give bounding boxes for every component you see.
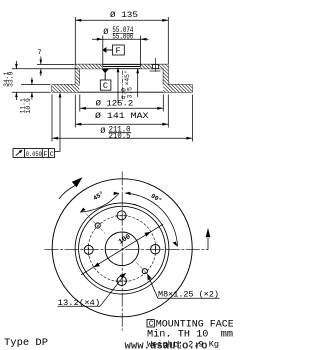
M8 hole NW (95, 223, 100, 228)
dim 7 arrows (40, 57, 42, 65)
arc 90deg (125, 193, 178, 247)
hat wall left inner (78, 69, 80, 85)
svg-text:C: C (103, 81, 108, 91)
rotation arrow top-left (59, 185, 77, 199)
right indicator leader (207, 238, 209, 250)
svg-text:Ø 141 MAX: Ø 141 MAX (95, 111, 149, 121)
hat wall right inner (162, 69, 164, 85)
leader M8 (158, 297, 220, 299)
svg-text:Ø 125.2: Ø 125.2 (96, 98, 134, 108)
svg-text:×45°: ×45° (123, 70, 131, 85)
section: plate top face (75, 63, 168, 65)
bolt hole W (84, 245, 93, 254)
dim 7 ext top (37, 63, 75, 65)
runout FCF box (13, 149, 55, 158)
common ext: mounting face extended left (12, 68, 79, 70)
hat wall right outer (167, 64, 169, 84)
datum F leader (106, 49, 112, 51)
dim 55 line (92, 38, 149, 40)
datum F box (113, 45, 125, 55)
dim 125.2 line (80, 107, 164, 109)
dim 135 ext right (167, 17, 169, 64)
arc 45deg (80, 193, 119, 212)
plan view circle 135 (79, 206, 166, 290)
svg-text:0.050: 0.050 (26, 151, 42, 159)
svg-text:C: C (149, 320, 154, 329)
bolt hole N (117, 211, 126, 220)
hat wall left outer (74, 64, 76, 84)
leader 13.2 (58, 305, 101, 307)
chamfer leader right (137, 69, 139, 97)
rotor right edge (191, 85, 193, 93)
bore wall right (140, 36, 142, 67)
hat wall right hatch (163, 64, 168, 84)
svg-text:Type DP: Type DP (4, 338, 48, 349)
dim 135 ext left (74, 17, 76, 64)
svg-text:Ø: Ø (103, 27, 108, 37)
dim 100 diagonal line (81, 224, 163, 275)
plan view center bore (105, 232, 139, 266)
svg-text:Ø: Ø (100, 126, 105, 136)
runout symbol (16, 150, 22, 155)
datum C leader (104, 73, 106, 80)
section centerline (121, 71, 123, 102)
bolt hole S (117, 276, 126, 285)
svg-text:www.asauto.ro: www.asauto.ro (125, 340, 208, 350)
svg-text:C: C (50, 151, 54, 159)
dim 141 line (75, 123, 168, 125)
section: bore chamfer line (103, 66, 141, 68)
svg-text:7: 7 (38, 49, 42, 56)
chamfer leader left (117, 68, 119, 104)
plan view outer circle (52, 179, 192, 317)
section: mounting face (79, 68, 163, 70)
svg-text:Min. TH 10 mm: Min. TH 10 mm (147, 328, 233, 340)
bore wall left (also ext of dia55) (102, 36, 104, 67)
plan view circle 141max (75, 203, 169, 294)
svg-text:M8×1.25 (×2): M8×1.25 (×2) (158, 289, 219, 299)
hat wall left hatch (75, 64, 79, 84)
plate hatch right a (141, 64, 153, 68)
dim 34.1 ext bottom (12, 91, 51, 93)
svg-text:F: F (116, 46, 121, 56)
ext lines below rotor (51, 95, 53, 142)
bolt hole E (151, 245, 160, 254)
rotor hatch left (52, 85, 79, 93)
drilled hole right edge (158, 64, 160, 68)
rotor top right (168, 84, 192, 86)
plate hatch left (76, 64, 103, 68)
mounting face C box bottom (147, 320, 154, 327)
datum C triangle on mounting face (101, 69, 109, 74)
plate hatch right b (159, 64, 169, 68)
svg-text:55.000: 55.000 (112, 32, 133, 42)
drilled hole centerline (155, 58, 157, 72)
svg-text:13.2(×4): 13.2(×4) (58, 298, 100, 308)
dim 211 line (52, 137, 192, 139)
plan view bolt circle dashed (88, 216, 156, 282)
vertical centerline (121, 172, 123, 331)
svg-text:F: F (43, 151, 47, 159)
svg-text:3.5: 3.5 (127, 87, 134, 99)
datum C box (100, 80, 111, 90)
dim 34.1 arrows (15, 61, 17, 69)
horizontal centerline (45, 249, 209, 251)
drilled hole left edge (152, 64, 154, 68)
M8 hole SE (142, 269, 147, 274)
dim 11.1 arrows (31, 78, 33, 85)
svg-text:10.9: 10.9 (25, 98, 32, 114)
rotor hatch right (163, 85, 192, 93)
dim 11.1 ext top (21, 84, 51, 86)
svg-text:Ø 135: Ø 135 (110, 10, 138, 20)
drilled hole counterbore line (150, 70, 161, 72)
runout FCF leader (55, 94, 60, 151)
svg-text:33.9: 33.9 (7, 71, 14, 87)
rotor bottom (52, 91, 192, 93)
rotor top left (52, 84, 75, 86)
dim 135 line (75, 19, 168, 21)
rotor left edge (51, 85, 53, 93)
